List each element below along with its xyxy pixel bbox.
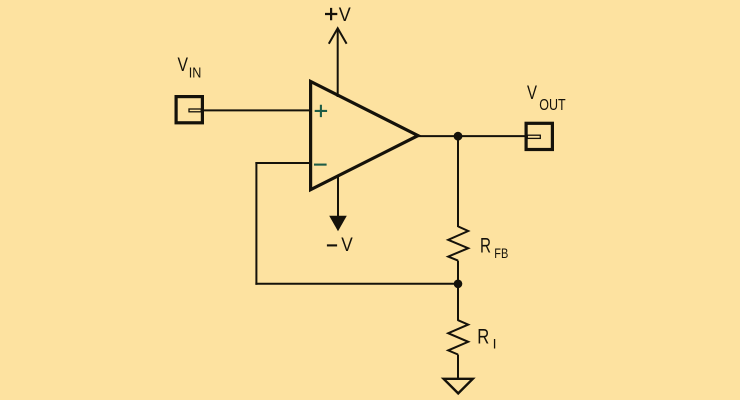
- svg-text:V: V: [527, 83, 537, 104]
- wire: +V supply to op-amp top edge: [337, 29, 339, 97]
- wire: output junction down to RFB: [457, 136, 459, 227]
- svg-text:OUT: OUT: [539, 97, 566, 114]
- node: feedback junction dot: [454, 280, 463, 289]
- svg-text:I: I: [493, 336, 497, 352]
- -V supply arrow: [329, 216, 347, 231]
- label -V: [327, 234, 353, 256]
- input terminal (VIN pad): [176, 97, 202, 123]
- label VOUT: [527, 83, 566, 114]
- wire: op-amp bottom edge to -V supply: [337, 175, 339, 218]
- output terminal (VOUT pad): [526, 123, 552, 149]
- svg-text:R: R: [477, 325, 489, 348]
- wire: input terminal to op-amp non-inverting input: [202, 109, 311, 111]
- wire: feedback to op-amp inverting input: [255, 162, 311, 164]
- wire: RFB to feedback junction: [457, 261, 459, 284]
- svg-text:V: V: [341, 234, 353, 256]
- wire: feedback left riser: [255, 162, 257, 285]
- +V supply arrow: [329, 28, 347, 44]
- svg-text:V: V: [178, 54, 189, 76]
- svg-text:R: R: [480, 233, 491, 257]
- label VIN: [178, 54, 202, 81]
- wire: feedback junction to left riser: [255, 283, 458, 285]
- op-amp + input marker: [315, 105, 327, 117]
- resistor RFB: [448, 226, 468, 260]
- label RFB: [480, 233, 508, 261]
- wire: RI to ground: [457, 355, 459, 380]
- op-amp U1: [311, 82, 418, 190]
- ground: [444, 379, 473, 394]
- label RI: [477, 325, 496, 351]
- wire: feedback junction down to RI: [457, 284, 459, 321]
- svg-text:IN: IN: [189, 65, 202, 81]
- resistor RI: [448, 320, 468, 354]
- node: output junction dot: [454, 132, 463, 141]
- svg-text:FB: FB: [494, 245, 508, 261]
- label +V: [325, 4, 351, 26]
- svg-text:V: V: [339, 4, 351, 26]
- wire: op-amp output to output terminal: [417, 135, 526, 137]
- op-amp - input marker: [314, 164, 327, 166]
